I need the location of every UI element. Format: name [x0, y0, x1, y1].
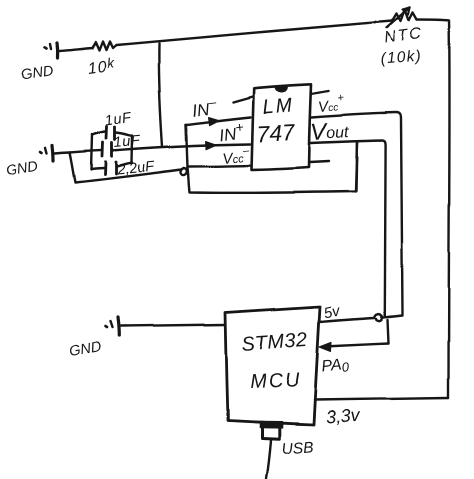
wire Vout feedback branch down — [357, 142, 358, 191]
wire Vout right and down — [311, 141, 386, 317]
wire PA0 into MCU — [325, 344, 389, 347]
wire stub opamp mid-right — [310, 161, 329, 162]
svg-text:3,3v: 3,3v — [325, 405, 361, 427]
wire stub opamp top-right — [312, 91, 330, 94]
resistor R1 — [92, 42, 116, 51]
wire GND3 to MCU — [121, 325, 225, 327]
ground GND2 — [41, 146, 54, 161]
capacitor bank right rail — [131, 136, 134, 164]
node A vertical wire to IN+ — [159, 44, 163, 147]
wire GND1 to R1 — [59, 49, 92, 52]
junction curl — [181, 168, 187, 175]
wire 5v curl to Vcc+ rail — [382, 316, 403, 318]
capacitor C3 — [92, 162, 133, 175]
op-amp U1 notch — [275, 87, 288, 92]
wire main IN+ line C2 to opamp — [113, 144, 251, 151]
wire GND2 diagonal to lower junction — [70, 153, 182, 183]
wire GND2 to junction — [55, 153, 70, 154]
5v crossing curl — [375, 314, 383, 321]
svg-text:LM: LM — [262, 94, 295, 118]
wire lower feedback box — [188, 143, 358, 193]
mcu U2 STM32 box — [225, 307, 320, 425]
arrowhead IN- — [209, 117, 220, 125]
wire stub opamp top-left — [233, 97, 253, 103]
wire IN- to opamp — [186, 117, 251, 125]
capacitor bank left rail — [92, 135, 93, 170]
thermistor NTC — [387, 8, 417, 28]
wire inner left vertical IN- to junction — [186, 125, 188, 168]
svg-text:STM32: STM32 — [241, 329, 309, 356]
svg-text:747: 747 — [256, 119, 297, 147]
capacitor C2 — [103, 143, 113, 157]
svg-text:(10k): (10k) — [380, 48, 422, 68]
wire 5v row — [320, 318, 375, 322]
USB connector — [260, 422, 282, 440]
wire PA0 vertical — [388, 320, 389, 344]
ground GND3 — [106, 318, 120, 336]
capacitor C1 — [93, 127, 133, 140]
wire USB down — [267, 441, 272, 479]
arrowhead PA0 — [320, 342, 332, 351]
label GND1 — [20, 64, 54, 84]
wire bottom 3.3v rail — [315, 398, 449, 400]
svg-text:MCU: MCU — [249, 369, 301, 393]
svg-text:USB: USB — [281, 439, 314, 458]
wire main IN+ line left of C2 — [70, 151, 102, 153]
ground GND1 — [45, 44, 58, 59]
wire Vcc- to opamp — [188, 166, 252, 167]
wire Vcc+ to right rail down — [312, 113, 403, 315]
arrowhead IN+ — [206, 141, 217, 149]
svg-text:PA0: PA0 — [321, 356, 351, 377]
wire top rail R1 to NTC — [116, 21, 392, 45]
wire NTC to top-right corner and right rail down — [417, 20, 450, 398]
op-amp U1 box — [252, 84, 312, 170]
